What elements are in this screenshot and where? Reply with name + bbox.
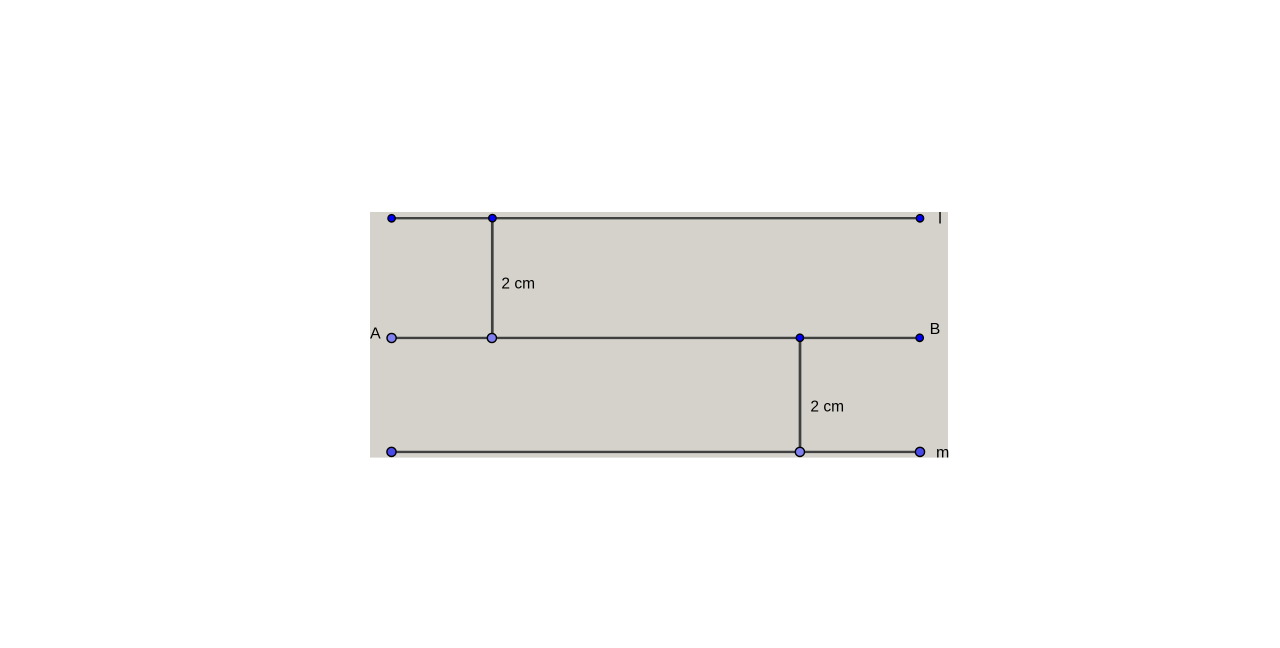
drawing canvas background	[370, 212, 948, 458]
svg-text:B: B	[930, 321, 941, 338]
svg-text:2 cm: 2 cm	[501, 276, 535, 293]
vertical distance segment between l and AB (upper 2 cm)	[491, 218, 494, 338]
point on line l (left end)	[388, 215, 395, 222]
svg-text:l: l	[938, 210, 942, 227]
line m (bottom horizontal segment)	[392, 451, 921, 453]
svg-text:m: m	[936, 445, 949, 462]
svg-text:A: A	[370, 326, 381, 343]
segment AB (middle horizontal)	[392, 337, 920, 339]
point B	[916, 334, 923, 341]
point on AB (top of lower vertical)	[796, 334, 803, 341]
point on line m (foot of lower vertical)	[795, 447, 804, 456]
point A	[387, 333, 396, 342]
point on line m (right end, at label m)	[915, 447, 924, 456]
point on AB (foot of upper vertical)	[487, 333, 496, 342]
svg-text:2 cm: 2 cm	[810, 399, 844, 416]
line l (top horizontal segment)	[392, 217, 920, 219]
vertical distance segment between AB and m (lower 2 cm)	[799, 338, 802, 452]
point on line l (right end, at label l)	[916, 215, 923, 222]
point on line m (left end)	[387, 447, 396, 456]
point on line l (foot of upper vertical)	[489, 214, 496, 221]
